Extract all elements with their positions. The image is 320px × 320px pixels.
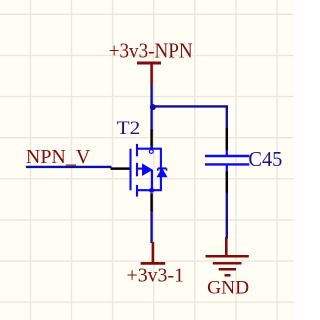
- svg-text:GND: GND: [207, 279, 249, 299]
- svg-text:T2: T2: [117, 118, 141, 139]
- svg-text:C45: C45: [248, 147, 282, 171]
- svg-text:NPN_V: NPN_V: [26, 146, 91, 168]
- svg-text:+3v3-1: +3v3-1: [127, 264, 185, 286]
- svg-text:+3v3-NPN: +3v3-NPN: [109, 39, 193, 63]
